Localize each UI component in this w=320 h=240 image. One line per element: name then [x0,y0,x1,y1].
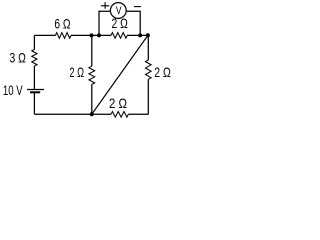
resistor R5 2-ohm zigzag (middle vertical) [89,66,95,84]
resistor R2 2-ohm zigzag (top, under voltmeter) [111,33,127,39]
resistor R6 2-ohm zigzag (right vertical) [146,60,152,79]
battery V1 long plate (+) [27,89,44,91]
node A junction dot [90,33,94,37]
plus sign of voltmeter [101,2,109,9]
svg-text:6 Ω: 6 Ω [54,16,70,32]
wire voltmeter loop right [126,11,140,35]
wire bottom left segment [34,113,111,115]
svg-text:2 Ω: 2 Ω [69,64,84,80]
resistor R4 2-ohm zigzag (bottom) [111,112,128,118]
node C junction dot [138,33,142,37]
svg-text:3 Ω: 3 Ω [10,49,26,65]
minus sign of voltmeter [134,6,141,8]
wire left branch middle [33,66,35,89]
wire top right segment [127,34,148,36]
wire right branch upper [147,35,149,60]
wire bottom right segment [128,113,148,115]
wire top-left horizontal segment [34,34,55,36]
svg-text:2 Ω: 2 Ω [109,95,127,111]
svg-text:2 Ω: 2 Ω [154,64,171,80]
battery V1 short plate (-) [30,91,40,93]
node E junction dot [90,112,94,116]
wire diagonal branch [92,35,148,114]
node D junction dot [146,33,150,37]
wire left branch upper [33,35,35,49]
wire middle branch lower [91,84,93,114]
wire voltmeter loop left [99,11,110,35]
resistor R3 3-ohm zigzag (left vertical) [32,50,37,67]
resistor R1 6-ohm zigzag (top left) [55,33,71,39]
node B junction dot [97,33,101,37]
svg-text:10 V: 10 V [3,82,23,98]
svg-text:V: V [116,5,122,17]
wire middle branch upper [91,35,93,66]
voltmeter M1 circle [110,3,126,19]
wire right branch lower [147,79,149,114]
wire left branch lower [33,93,35,115]
wire top middle segment [71,34,111,36]
